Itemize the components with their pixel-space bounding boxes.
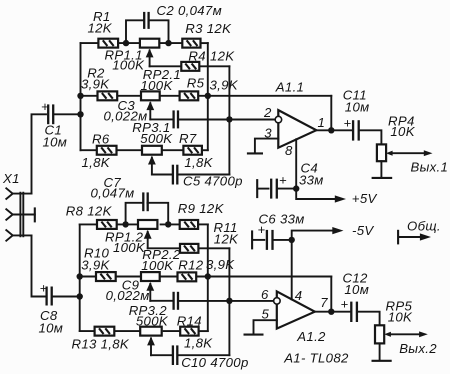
svg-text:A1.2: A1.2 [296,329,326,344]
svg-text:R3 12K: R3 12K [185,21,232,36]
svg-text:C10 4700p: C10 4700p [181,355,248,370]
resistor R13 [95,327,115,336]
node C8-bus [77,293,83,299]
svg-text:2: 2 [263,105,272,120]
wire output A1.2 [315,311,350,313]
potentiometer RP2.2 [141,272,160,301]
wire C10 row [151,354,172,356]
svg-text:0,047м: 0,047м [91,186,135,201]
wire -5V rail [292,231,333,240]
svg-text:C6 33м: C6 33м [259,212,305,227]
svg-text:10м: 10м [39,321,64,336]
node R8-RP1.2 [122,221,128,227]
node R1-RP1.1 [123,40,129,46]
wire row1 [81,42,141,44]
ground A1.2 [244,334,264,336]
resistor R2 [98,91,118,100]
node C9-bus2b [226,298,232,304]
wire output A1.1 [316,129,352,131]
resistor R5 [180,91,199,100]
capacitor C1 [41,99,81,124]
wire row2b [80,276,96,278]
wire row3b [80,330,95,332]
svg-text:12K: 12K [210,48,235,63]
wire X1 pin1 to C1 [32,114,47,193]
svg-text:3: 3 [264,125,272,140]
resistor R12 [178,272,197,281]
potentiometer RP4 [372,144,433,178]
resistor R9 [180,220,198,229]
resistor R10 [96,272,116,281]
svg-text:10м: 10м [43,135,68,150]
node R2-bus [77,93,83,99]
capacitor C5 [173,165,177,185]
node R12-feedback [205,273,211,279]
svg-text:R8 12K: R8 12K [66,204,113,219]
node R10-bus [77,273,83,279]
wire R11 row [148,247,180,249]
potentiometer RP1.1 [140,39,159,67]
op-amp A1.1 [275,110,316,148]
wire C9 row [150,300,172,302]
svg-text:7: 7 [320,295,328,310]
potentiometer RP1.2 [138,220,157,248]
resistor R3 [182,39,200,48]
svg-text:+: + [341,296,349,311]
resistor R7 [183,146,202,155]
wire feedback elbow b [330,277,332,312]
potentiometer RP2.1 [141,91,160,119]
capacitor C9 [174,292,178,310]
svg-text:Вых.1: Вых.1 [411,160,449,175]
node RP1.1-R3 [165,40,171,46]
svg-text:6: 6 [261,287,269,302]
capacitor C2 [126,12,169,43]
svg-text:500K: 500K [136,313,169,328]
svg-text:-5V: -5V [352,223,374,238]
svg-text:33м: 33м [299,173,324,188]
svg-text:1,8K: 1,8K [82,155,111,170]
svg-text:100K: 100K [141,78,174,93]
resistor R14 [180,327,198,336]
capacitor C11 [344,115,382,144]
node RP1.2-R9 [165,221,171,227]
svg-text:0,022м: 0,022м [106,288,150,303]
potentiometer RP5 [372,325,428,361]
svg-text:3,9K: 3,9K [81,258,110,273]
wire row3 [81,149,97,151]
svg-text:R4: R4 [188,48,206,63]
op-amp A1.2 [274,291,315,328]
wire feedback elbow [330,96,332,131]
svg-text:R5: R5 [187,76,205,91]
svg-text:A1- TL082: A1- TL082 [283,351,349,366]
wire row2 [81,95,98,97]
svg-text:1,8K: 1,8K [184,336,213,351]
svg-text:10K: 10K [390,124,415,139]
svg-text:R6: R6 [92,132,110,147]
node C3-bus2 [226,116,232,122]
resistor R8 [97,220,117,229]
svg-text:Вых.2: Вых.2 [399,341,437,356]
capacitor C7 [126,192,169,224]
wire left bus bottom [79,224,81,331]
svg-text:100K: 100K [113,240,146,255]
svg-text:5: 5 [262,307,270,322]
potentiometer RP3.2 [140,327,162,356]
wire C5 row [152,174,172,176]
svg-text:4: 4 [295,288,303,303]
svg-text:+: + [344,115,352,130]
node output1 [328,127,334,133]
svg-text:C2 0,047м: C2 0,047м [157,3,222,18]
svg-text:10K: 10K [388,309,413,324]
wire pin2 bus2 [228,66,230,174]
ground A1.1 [247,152,263,154]
node R5-feedback [205,93,211,99]
svg-text:R7: R7 [179,131,197,146]
svg-text:Общ.: Общ. [407,219,441,234]
capacitor C12 [341,296,380,325]
svg-text:500K: 500K [140,131,173,146]
svg-text:R9 12K: R9 12K [178,201,225,216]
wire X1 pin3 to C8 [32,235,46,296]
node pin4-C6 [289,237,295,243]
wire R4 row [150,65,182,67]
capacitor C6 rail [252,222,292,250]
svg-text:1,8K: 1,8K [184,155,213,170]
wire pin3 [255,139,278,153]
svg-text:R14: R14 [177,313,202,328]
resistor R4 [181,62,199,71]
capacitor C3 [174,110,178,128]
svg-text:R13 1,8K: R13 1,8K [72,337,130,352]
wire left bus top [80,43,82,150]
svg-text:+: + [40,281,48,296]
wire feedback bus1b [207,224,209,331]
svg-text:+5V: +5V [352,191,378,206]
wire row1b [80,223,138,225]
wire pin6 bus2b [228,248,230,355]
svg-text:8: 8 [285,143,293,158]
terminal common [398,230,431,245]
svg-text:X1: X1 [2,171,20,186]
capacitor C8 [40,281,80,306]
svg-text:10м: 10м [344,282,369,297]
svg-text:C5 4700p: C5 4700p [183,174,243,189]
capacitor C4 rail [257,173,296,199]
wire pin8 [295,139,297,188]
svg-text:3,9K: 3,9K [206,257,235,272]
node pin8-C4 [293,185,299,191]
resistor R11 [180,244,198,253]
svg-text:3,9K: 3,9K [210,78,239,93]
svg-text:1: 1 [318,115,326,130]
wire +5V rail [296,189,335,199]
svg-text:10м: 10м [345,100,370,115]
wire pin4 [291,240,293,300]
svg-text:100K: 100K [112,57,145,72]
node C1-bus [77,111,83,117]
wire C3 row [150,118,172,120]
potentiometer RP3.1 [142,146,162,175]
resistor R6 [97,146,117,155]
resistor R1 [98,39,118,48]
connector X1 [6,188,35,240]
wire pin5 [254,320,277,333]
svg-text:+: + [41,99,49,114]
svg-text:+: + [279,173,287,188]
svg-text:12K: 12K [88,20,113,35]
svg-text:R12: R12 [178,257,203,272]
svg-text:12K: 12K [214,231,239,246]
wire feedback bus1 [207,43,209,150]
svg-text:3,9K: 3,9K [81,77,110,92]
svg-text:100K: 100K [141,258,174,273]
svg-text:A1.1: A1.1 [275,79,304,94]
node output2 [328,309,334,315]
capacitor C10 [173,345,177,365]
